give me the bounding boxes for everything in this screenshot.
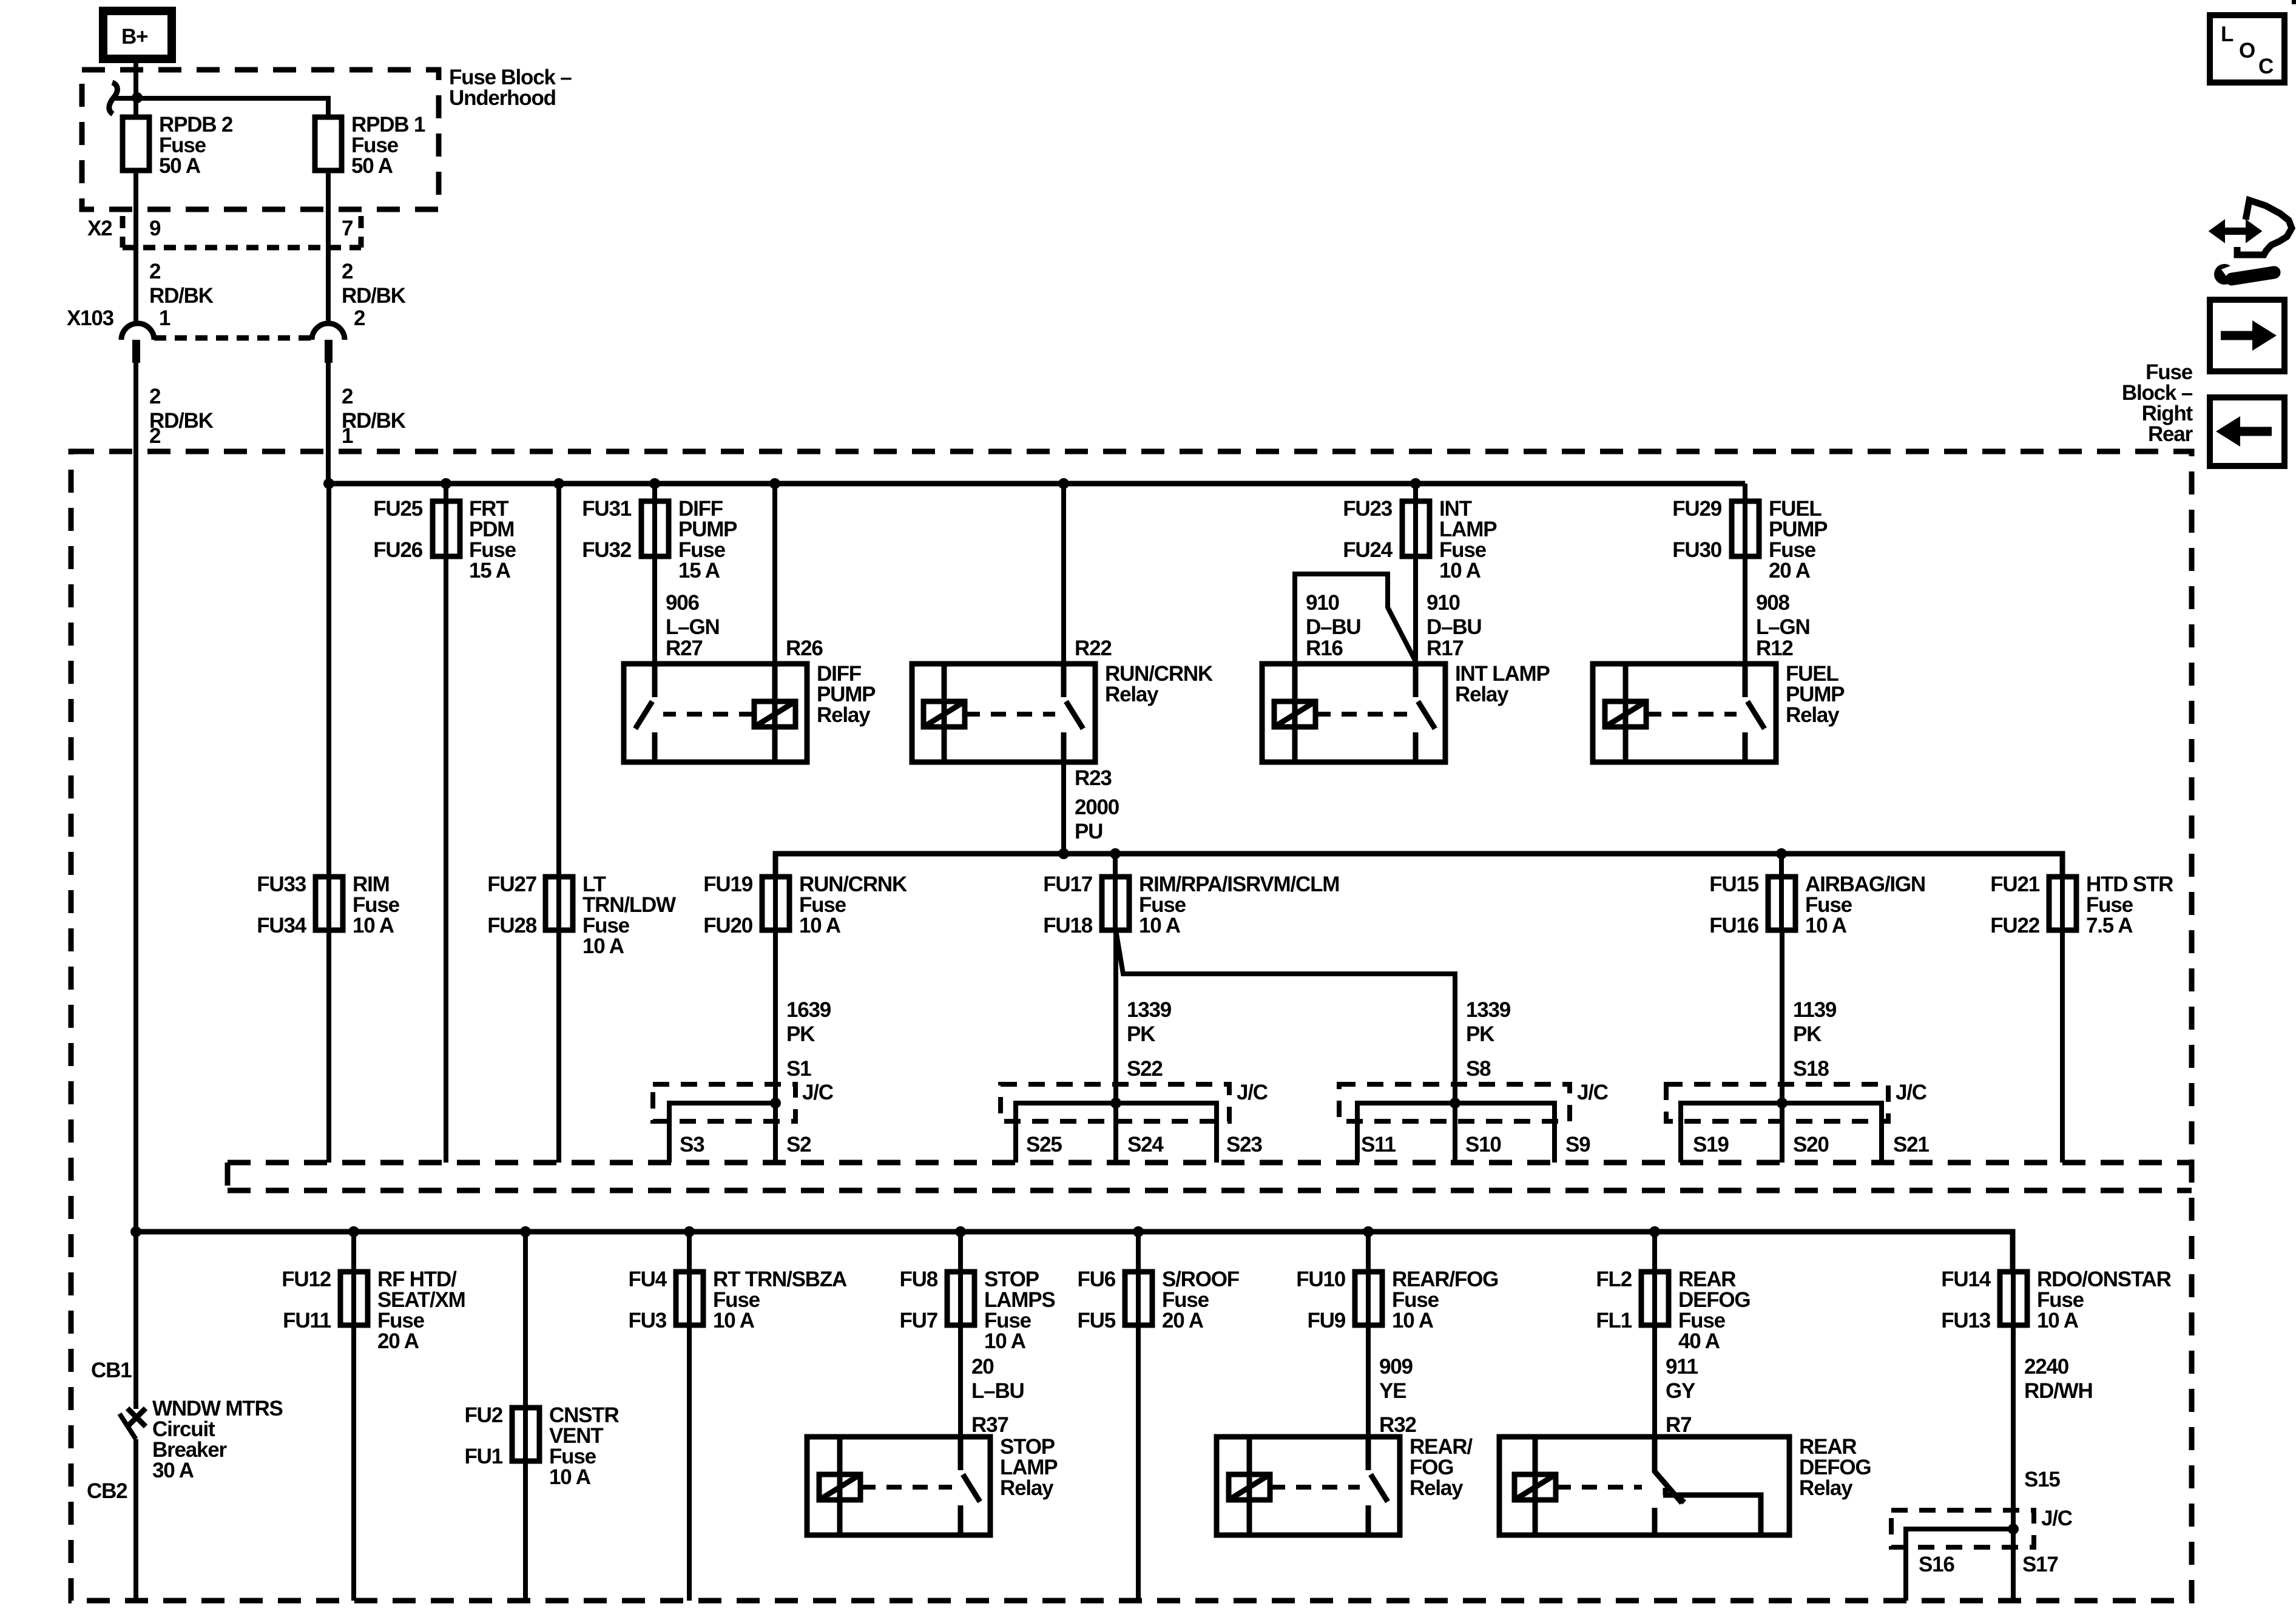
wire label 2000 PU [1075, 795, 1119, 843]
svg-text:S23: S23 [1226, 1133, 1262, 1156]
svg-text:S21: S21 [1893, 1133, 1929, 1156]
svg-text:2: 2 [354, 306, 365, 330]
wire R26 coil feed [772, 484, 777, 664]
pin label CB2 [87, 1479, 127, 1503]
svg-text:S16: S16 [1919, 1553, 1954, 1576]
junction top bus at FU33 wire [323, 478, 334, 489]
wire S10 drop [1453, 1103, 1457, 1163]
pin label R23 [1075, 766, 1112, 790]
label FRT PDM fuse 15A [469, 497, 516, 582]
relay REAR DEFOG [1499, 1437, 1789, 1535]
fuse FL2/FL1 REAR DEFOG 40A [1641, 1272, 1669, 1325]
fuse FU2/FU1 CNSTR VENT 10A [512, 1408, 539, 1461]
fuse FU23/FU24 INT LAMP 10A [1402, 501, 1430, 556]
label S/ROOF fuse 20A [1162, 1268, 1240, 1332]
designator FU1 [464, 1445, 502, 1468]
splice label S16 [1919, 1553, 1954, 1576]
svg-text:1639: 1639 [786, 998, 831, 1022]
junction block J/C S18 dashed box [1666, 1084, 1888, 1121]
designator FU17 [1043, 873, 1092, 896]
svg-text:20 A: 20 A [1162, 1309, 1204, 1332]
svg-text:R22: R22 [1075, 636, 1112, 660]
designator FU8 [899, 1268, 937, 1291]
svg-text:S8: S8 [1466, 1057, 1491, 1081]
svg-text:S3: S3 [680, 1133, 704, 1156]
pin 1 at fuse block right wire [342, 424, 353, 448]
fusible link curl symbol [109, 83, 118, 114]
fuse FU29/FU30 FUEL PUMP 20A [1732, 501, 1759, 556]
wire label 20 L-BU [971, 1355, 1024, 1403]
junction lower bus at FU4 wire [684, 1226, 695, 1237]
connector X103 dashed line [154, 336, 312, 341]
junction node S18 [1777, 1098, 1788, 1109]
designator FU7 [899, 1309, 937, 1332]
designator FU28 [487, 914, 537, 937]
label LT TRN/LDW fuse 10A [582, 873, 676, 958]
svg-text:CB1: CB1 [91, 1359, 132, 1382]
male terminal stub left [132, 340, 140, 363]
svg-text:X2: X2 [87, 217, 112, 240]
label WNDW MTRS circuit breaker 30A [152, 1397, 283, 1482]
designator FU12 [282, 1268, 331, 1291]
svg-text:S9: S9 [1565, 1133, 1590, 1156]
wire FL2 column to REAR DEFOG relay [1652, 1232, 1657, 1437]
svg-text:FU25: FU25 [373, 497, 423, 521]
svg-text:10 A: 10 A [799, 914, 841, 937]
svg-text:S2: S2 [786, 1133, 811, 1156]
svg-text:FU34: FU34 [257, 914, 307, 937]
svg-text:FU15: FU15 [1709, 873, 1759, 896]
label fuse block right rear [2122, 360, 2193, 446]
wire RPDB 1 output pin 7 [326, 170, 331, 323]
svg-text:1339: 1339 [1127, 998, 1172, 1022]
label INT LAMP fuse 10A [1439, 497, 1497, 582]
svg-text:10 A: 10 A [2037, 1309, 2079, 1332]
wire FU12 column [351, 1232, 356, 1601]
connector designator X2 [87, 217, 112, 240]
junction node S1 [770, 1098, 781, 1109]
designator FL2 [1596, 1268, 1632, 1291]
junction node S15 [2008, 1524, 2019, 1534]
wire label 2 RD/BK right lower [342, 385, 406, 433]
svg-text:FL2: FL2 [1596, 1268, 1632, 1291]
label HTD STR fuse 7.5A [2086, 873, 2173, 937]
svg-text:909: 909 [1379, 1355, 1413, 1379]
svg-text:C: C [2258, 55, 2274, 78]
svg-text:2: 2 [342, 260, 353, 283]
wire lower bus to circuit breaker contact [133, 1232, 138, 1409]
svg-text:B+: B+ [121, 25, 148, 49]
designator FU13 [1941, 1309, 1991, 1332]
svg-text:FU8: FU8 [899, 1268, 937, 1291]
wire FU27 column to strip [556, 484, 561, 1163]
designator FU32 [582, 538, 632, 562]
junction top bus at FU25 wire [441, 478, 451, 489]
designator FU30 [1672, 538, 1722, 562]
relay INT LAMP [1262, 664, 1445, 762]
svg-text:15 A: 15 A [678, 559, 720, 582]
connector X103 left half-circle terminal [121, 323, 154, 340]
svg-text:FU17: FU17 [1043, 873, 1092, 896]
svg-text:FU32: FU32 [582, 538, 632, 562]
svg-text:O: O [2239, 39, 2255, 62]
relay REAR/FOG [1217, 1437, 1400, 1535]
svg-text:7: 7 [342, 217, 353, 240]
fuse FU4/FU3 RT TRN/SBZA 10A [676, 1272, 703, 1325]
junction lower bus at FU8 wire [955, 1226, 966, 1237]
pin label R22 [1075, 636, 1112, 660]
designator FU6 [1077, 1268, 1115, 1291]
wire label 1639 PK [786, 998, 831, 1046]
wire branch to RPDB 1 fuse [113, 98, 328, 117]
splice label S22 [1127, 1057, 1163, 1081]
pin 2 at fuse block left wire [149, 424, 161, 448]
junction mid bus at FU15 wire [1776, 848, 1787, 859]
designator FU26 [373, 538, 423, 562]
svg-text:10 A: 10 A [353, 914, 394, 937]
svg-text:X103: X103 [67, 306, 114, 330]
svg-text:FU7: FU7 [899, 1309, 937, 1332]
wire S24 drop [1113, 1103, 1118, 1163]
splice label S20 [1793, 1133, 1829, 1156]
designator FU20 [703, 914, 753, 937]
wire circuit breaker output CB2 [133, 1439, 138, 1601]
fuse FU8/FU7 STOP LAMPS 10A [947, 1272, 974, 1325]
pin label R12 [1756, 636, 1793, 660]
fuse block underhood dashed box [82, 70, 439, 209]
fuse FU15/FU16 AIRBAG/IGN 10A [1768, 877, 1795, 930]
junction top bus at R22 wire [1058, 478, 1069, 489]
fuse FU33/FU34 RIM 10A [316, 877, 343, 930]
wire label 2240 RD/WH [2024, 1355, 2093, 1403]
splice label S25 [1026, 1133, 1062, 1156]
label REAR/FOG relay [1410, 1435, 1473, 1500]
fuse FU25/FU26 FRT PDM 15A [433, 501, 460, 556]
svg-text:L–GN: L–GN [666, 615, 720, 639]
svg-text:FU26: FU26 [373, 538, 423, 562]
wire FU21 column [2060, 877, 2065, 930]
svg-text:D–BU: D–BU [1427, 615, 1482, 639]
svg-text:R26: R26 [786, 636, 823, 660]
junction top bus at FU23 wire [1410, 478, 1421, 489]
svg-text:S1: S1 [786, 1057, 811, 1081]
wire label 906 L-GN [666, 591, 720, 639]
svg-text:S11: S11 [1361, 1133, 1396, 1156]
svg-text:R27: R27 [666, 636, 703, 660]
label RIM/RPA/ISRVM/CLM fuse 10A [1139, 873, 1339, 937]
splice label S23 [1226, 1133, 1262, 1156]
svg-text:FU13: FU13 [1941, 1309, 1991, 1332]
svg-text:910: 910 [1306, 591, 1340, 615]
svg-text:S25: S25 [1026, 1133, 1062, 1156]
pin label R16 [1306, 636, 1343, 660]
fuse FU27/FU28 LT TRN/LDW 10A [545, 877, 573, 930]
forward page arrow box icon [2210, 300, 2284, 371]
junction lower bus at FU12 wire [348, 1226, 359, 1237]
connector test diagnostic icon with wrench [2210, 200, 2292, 285]
label REAR DEFOG fuse 40A [1678, 1268, 1750, 1353]
pin label R27 [666, 636, 703, 660]
svg-text:R12: R12 [1756, 636, 1793, 660]
wire 2 RD/BK from X103 pin1 down to lower bus [133, 363, 138, 1232]
svg-text:S20: S20 [1793, 1133, 1829, 1156]
splice label S10 [1465, 1133, 1501, 1156]
designator FU21 [1990, 873, 2040, 896]
junction S18 internal bar with S19 S21 drops [1681, 1103, 1882, 1163]
svg-text:FU29: FU29 [1672, 497, 1722, 521]
label REAR/FOG fuse 10A [1392, 1268, 1498, 1332]
connector X2 dashed symbol [123, 216, 361, 248]
svg-text:RD/WH: RD/WH [2024, 1379, 2093, 1403]
svg-text:15 A: 15 A [469, 559, 511, 582]
svg-text:FU30: FU30 [1672, 538, 1722, 562]
designator FU22 [1990, 914, 2040, 937]
label STOP LAMPS fuse 10A [984, 1268, 1055, 1353]
designator FU19 [703, 873, 753, 896]
svg-text:PK: PK [1466, 1022, 1494, 1046]
svg-text:9: 9 [149, 217, 161, 240]
designator FU10 [1296, 1268, 1346, 1291]
junction lower bus at FU6 wire [1133, 1226, 1144, 1237]
svg-text:2: 2 [149, 424, 161, 448]
junction node at B+ feed split [132, 92, 143, 103]
wire FU17 column [1113, 854, 1118, 930]
svg-text:10 A: 10 A [984, 1329, 1026, 1353]
svg-text:FU4: FU4 [628, 1268, 667, 1291]
pin label R37 [971, 1413, 1008, 1437]
junction mid bus at R23 wire [1058, 848, 1069, 859]
circuit breaker WNDW MTRS contact X [127, 1408, 146, 1426]
wire label 2 RD/BK left upper [149, 260, 214, 308]
relay RUN/CRNK [912, 664, 1095, 762]
svg-text:FU11: FU11 [283, 1309, 331, 1332]
svg-text:GY: GY [1666, 1379, 1695, 1403]
svg-text:911: 911 [1666, 1355, 1698, 1379]
svg-text:2: 2 [149, 260, 161, 283]
LOC reference box icon [2210, 15, 2284, 83]
svg-text:50 A: 50 A [351, 154, 393, 178]
splice label S3 [680, 1133, 704, 1156]
label RDO/ONSTAR fuse 10A [2037, 1268, 2172, 1332]
label RUN/CRNK fuse 10A [799, 873, 907, 937]
label J/C at S15 [2041, 1507, 2073, 1530]
svg-text:FL1: FL1 [1596, 1309, 1632, 1332]
svg-text:L–BU: L–BU [971, 1379, 1024, 1403]
svg-text:J/C: J/C [1896, 1081, 1927, 1104]
junction top bus at R26 wire [769, 478, 780, 489]
wire RPDB 2 output pin 9 [133, 170, 138, 323]
svg-text:1339: 1339 [1466, 998, 1511, 1022]
wire FU2 column [523, 1232, 528, 1601]
designator FU15 [1709, 873, 1759, 896]
svg-text:S10: S10 [1465, 1133, 1501, 1156]
svg-text:FU2: FU2 [464, 1403, 502, 1427]
svg-text:FU18: FU18 [1043, 914, 1093, 937]
inner fuse block boundary strip [228, 1163, 2192, 1190]
splice label S17 [2022, 1553, 2058, 1576]
junction S1 internal bar with S3 S2 drops [669, 1103, 775, 1163]
splice label S2 [786, 1133, 811, 1156]
junction top bus at FU31 wire [649, 478, 660, 489]
wire 2 RD/BK from X103 pin2 down to top bus [326, 363, 331, 484]
svg-text:R16: R16 [1306, 636, 1343, 660]
pin label R17 [1427, 636, 1464, 660]
svg-text:FU6: FU6 [1077, 1268, 1115, 1291]
svg-text:FU24: FU24 [1343, 538, 1393, 562]
label DIFF PUMP fuse 15A [678, 497, 737, 582]
junction lower bus at FU2 wire [520, 1226, 531, 1237]
label fuse RPDB 1 [351, 113, 425, 178]
wire label 2 RD/BK right upper [342, 260, 406, 308]
svg-text:Relay: Relay [1799, 1476, 1853, 1500]
svg-text:FU9: FU9 [1307, 1309, 1345, 1332]
designator FU3 [628, 1309, 666, 1332]
wire FU19 column [773, 877, 778, 930]
svg-text:30 A: 30 A [152, 1459, 194, 1482]
label J/C at S8 [1577, 1081, 1609, 1104]
svg-text:906: 906 [666, 591, 700, 615]
page corner artifact mark [2292, 0, 2296, 4]
wire FU14 column to S15 junction [2011, 1272, 2016, 1529]
wire label 1339 PK at S8 [1466, 998, 1511, 1046]
designator FU23 [1343, 497, 1393, 521]
svg-text:FU20: FU20 [703, 914, 753, 937]
label FUEL PUMP fuse 20A [1769, 497, 1828, 582]
svg-text:R37: R37 [971, 1413, 1008, 1437]
fuse RPDB 1 50A [315, 117, 342, 170]
svg-text:Relay: Relay [1786, 703, 1840, 727]
male terminal stub right [325, 340, 333, 363]
label RF HTD/SEAT/XM fuse 20A [377, 1268, 465, 1353]
pin 2 of X103 [354, 306, 365, 330]
designator FU25 [373, 497, 423, 521]
svg-text:Rear: Rear [2148, 422, 2193, 446]
wire FU8 column to STOP LAMP relay [958, 1232, 963, 1437]
wire FU31 column to DIFF PUMP relay [652, 484, 657, 664]
pin label R7 [1666, 1413, 1691, 1437]
svg-text:L: L [2221, 22, 2234, 46]
battery positive terminal B+ [103, 11, 172, 59]
svg-text:FU27: FU27 [487, 873, 536, 896]
wire R23 2000 PU to mid bus [1061, 762, 1066, 854]
label CNSTR VENT fuse 10A [549, 1403, 619, 1489]
svg-text:1: 1 [342, 424, 353, 448]
label DIFF PUMP relay [817, 662, 876, 727]
svg-text:1: 1 [159, 306, 171, 330]
label RUN/CRNK relay [1105, 662, 1213, 706]
svg-text:40 A: 40 A [1678, 1329, 1720, 1353]
svg-text:20 A: 20 A [1769, 559, 1811, 582]
splice label S9 [1565, 1133, 1590, 1156]
splice label S18 [1793, 1057, 1829, 1081]
designator FU5 [1077, 1309, 1115, 1332]
fuse FU17/FU18 RIM/RPA/ISRVM/CLM 10A [1102, 877, 1129, 930]
svg-text:1139: 1139 [1793, 998, 1837, 1022]
label J/C at S1 [802, 1081, 834, 1104]
splice label S1 [786, 1057, 811, 1081]
junction S22 internal bar with S25 S23 drops [1016, 1103, 1217, 1163]
label fuse RPDB 2 [159, 113, 233, 178]
svg-text:FU14: FU14 [1941, 1268, 1991, 1291]
label RT TRN/SBZA fuse 10A [713, 1268, 847, 1332]
circuit breaker blade [120, 1414, 136, 1439]
label fuse block underhood [449, 66, 572, 110]
splice label S19 [1693, 1133, 1729, 1156]
label AIRBAG/IGN fuse 10A [1805, 873, 1925, 937]
wire 910 D-BU branch to R16 [1295, 574, 1416, 664]
designator FL1 [1596, 1309, 1632, 1332]
svg-text:Relay: Relay [1000, 1476, 1054, 1500]
fuse FU14/FU13 RDO/ONSTAR 10A [2000, 1272, 2027, 1325]
designator FU4 [628, 1268, 667, 1291]
pin 9 of X2 [149, 217, 161, 240]
junction node S8 [1450, 1098, 1460, 1109]
svg-text:2: 2 [149, 385, 161, 408]
svg-text:R7: R7 [1666, 1413, 1691, 1437]
designator FU24 [1343, 538, 1393, 562]
svg-text:PU: PU [1075, 820, 1102, 843]
connector designator X103 [67, 306, 114, 330]
pin label R26 [786, 636, 823, 660]
junction mid bus at FU17 wire [1110, 848, 1121, 859]
svg-text:FU19: FU19 [703, 873, 753, 896]
wire label 910 D-BU left [1306, 591, 1361, 639]
svg-text:2000: 2000 [1075, 795, 1119, 819]
svg-text:S24: S24 [1127, 1133, 1164, 1156]
svg-text:R23: R23 [1075, 766, 1112, 790]
designator FU29 [1672, 497, 1722, 521]
junction lower bus at FU10 wire [1363, 1226, 1374, 1237]
wire label 1139 PK [1793, 998, 1837, 1046]
mid distribution bus wire [775, 854, 2062, 877]
wire label 910 D-BU right [1427, 591, 1482, 639]
junction block J/C S8 dashed box [1339, 1084, 1570, 1121]
junction node S22 [1110, 1098, 1121, 1109]
designator FU16 [1709, 914, 1759, 937]
designator FU27 [487, 873, 536, 896]
wire FU22 output to strip [2060, 930, 2065, 1163]
backward page arrow box icon [2210, 397, 2284, 466]
designator FU2 [464, 1403, 502, 1427]
fuse RPDB 2 50A [123, 117, 149, 170]
svg-text:10 A: 10 A [1439, 559, 1481, 582]
relay STOP LAMP [807, 1437, 990, 1535]
wire 1139 PK to S18 junction [1780, 930, 1784, 1103]
svg-text:J/C: J/C [1237, 1081, 1268, 1104]
splice label S8 [1466, 1057, 1491, 1081]
fuse FU19/FU20 RUN/CRNK 10A [762, 877, 789, 930]
wire B+ down to RPDB 2 fuse [133, 59, 138, 117]
fuse FU21/FU22 HTD STR 7.5A [2049, 877, 2076, 930]
wire FU4 column [687, 1232, 692, 1601]
wire 1339 PK branch to S8 junction [1116, 930, 1455, 1103]
fuse FU10/FU9 REAR/FOG 10A [1355, 1272, 1382, 1325]
wire FU6 column [1136, 1232, 1141, 1601]
svg-text:2240: 2240 [2024, 1355, 2069, 1379]
svg-text:FU23: FU23 [1343, 497, 1393, 521]
fuse block right rear dashed boundary [71, 451, 2192, 1601]
label J/C at S18 [1896, 1081, 1927, 1104]
designator FU14 [1941, 1268, 1991, 1291]
svg-text:FU10: FU10 [1296, 1268, 1346, 1291]
wire S20 drop [1780, 1103, 1784, 1163]
wire label 911 GY [1666, 1355, 1698, 1403]
fuse FU6/FU5 S/ROOF 20A [1125, 1272, 1152, 1325]
svg-text:910: 910 [1427, 591, 1460, 615]
svg-text:S18: S18 [1793, 1057, 1829, 1081]
label STOP LAMP relay [1000, 1435, 1058, 1500]
svg-text:J/C: J/C [1577, 1081, 1609, 1104]
